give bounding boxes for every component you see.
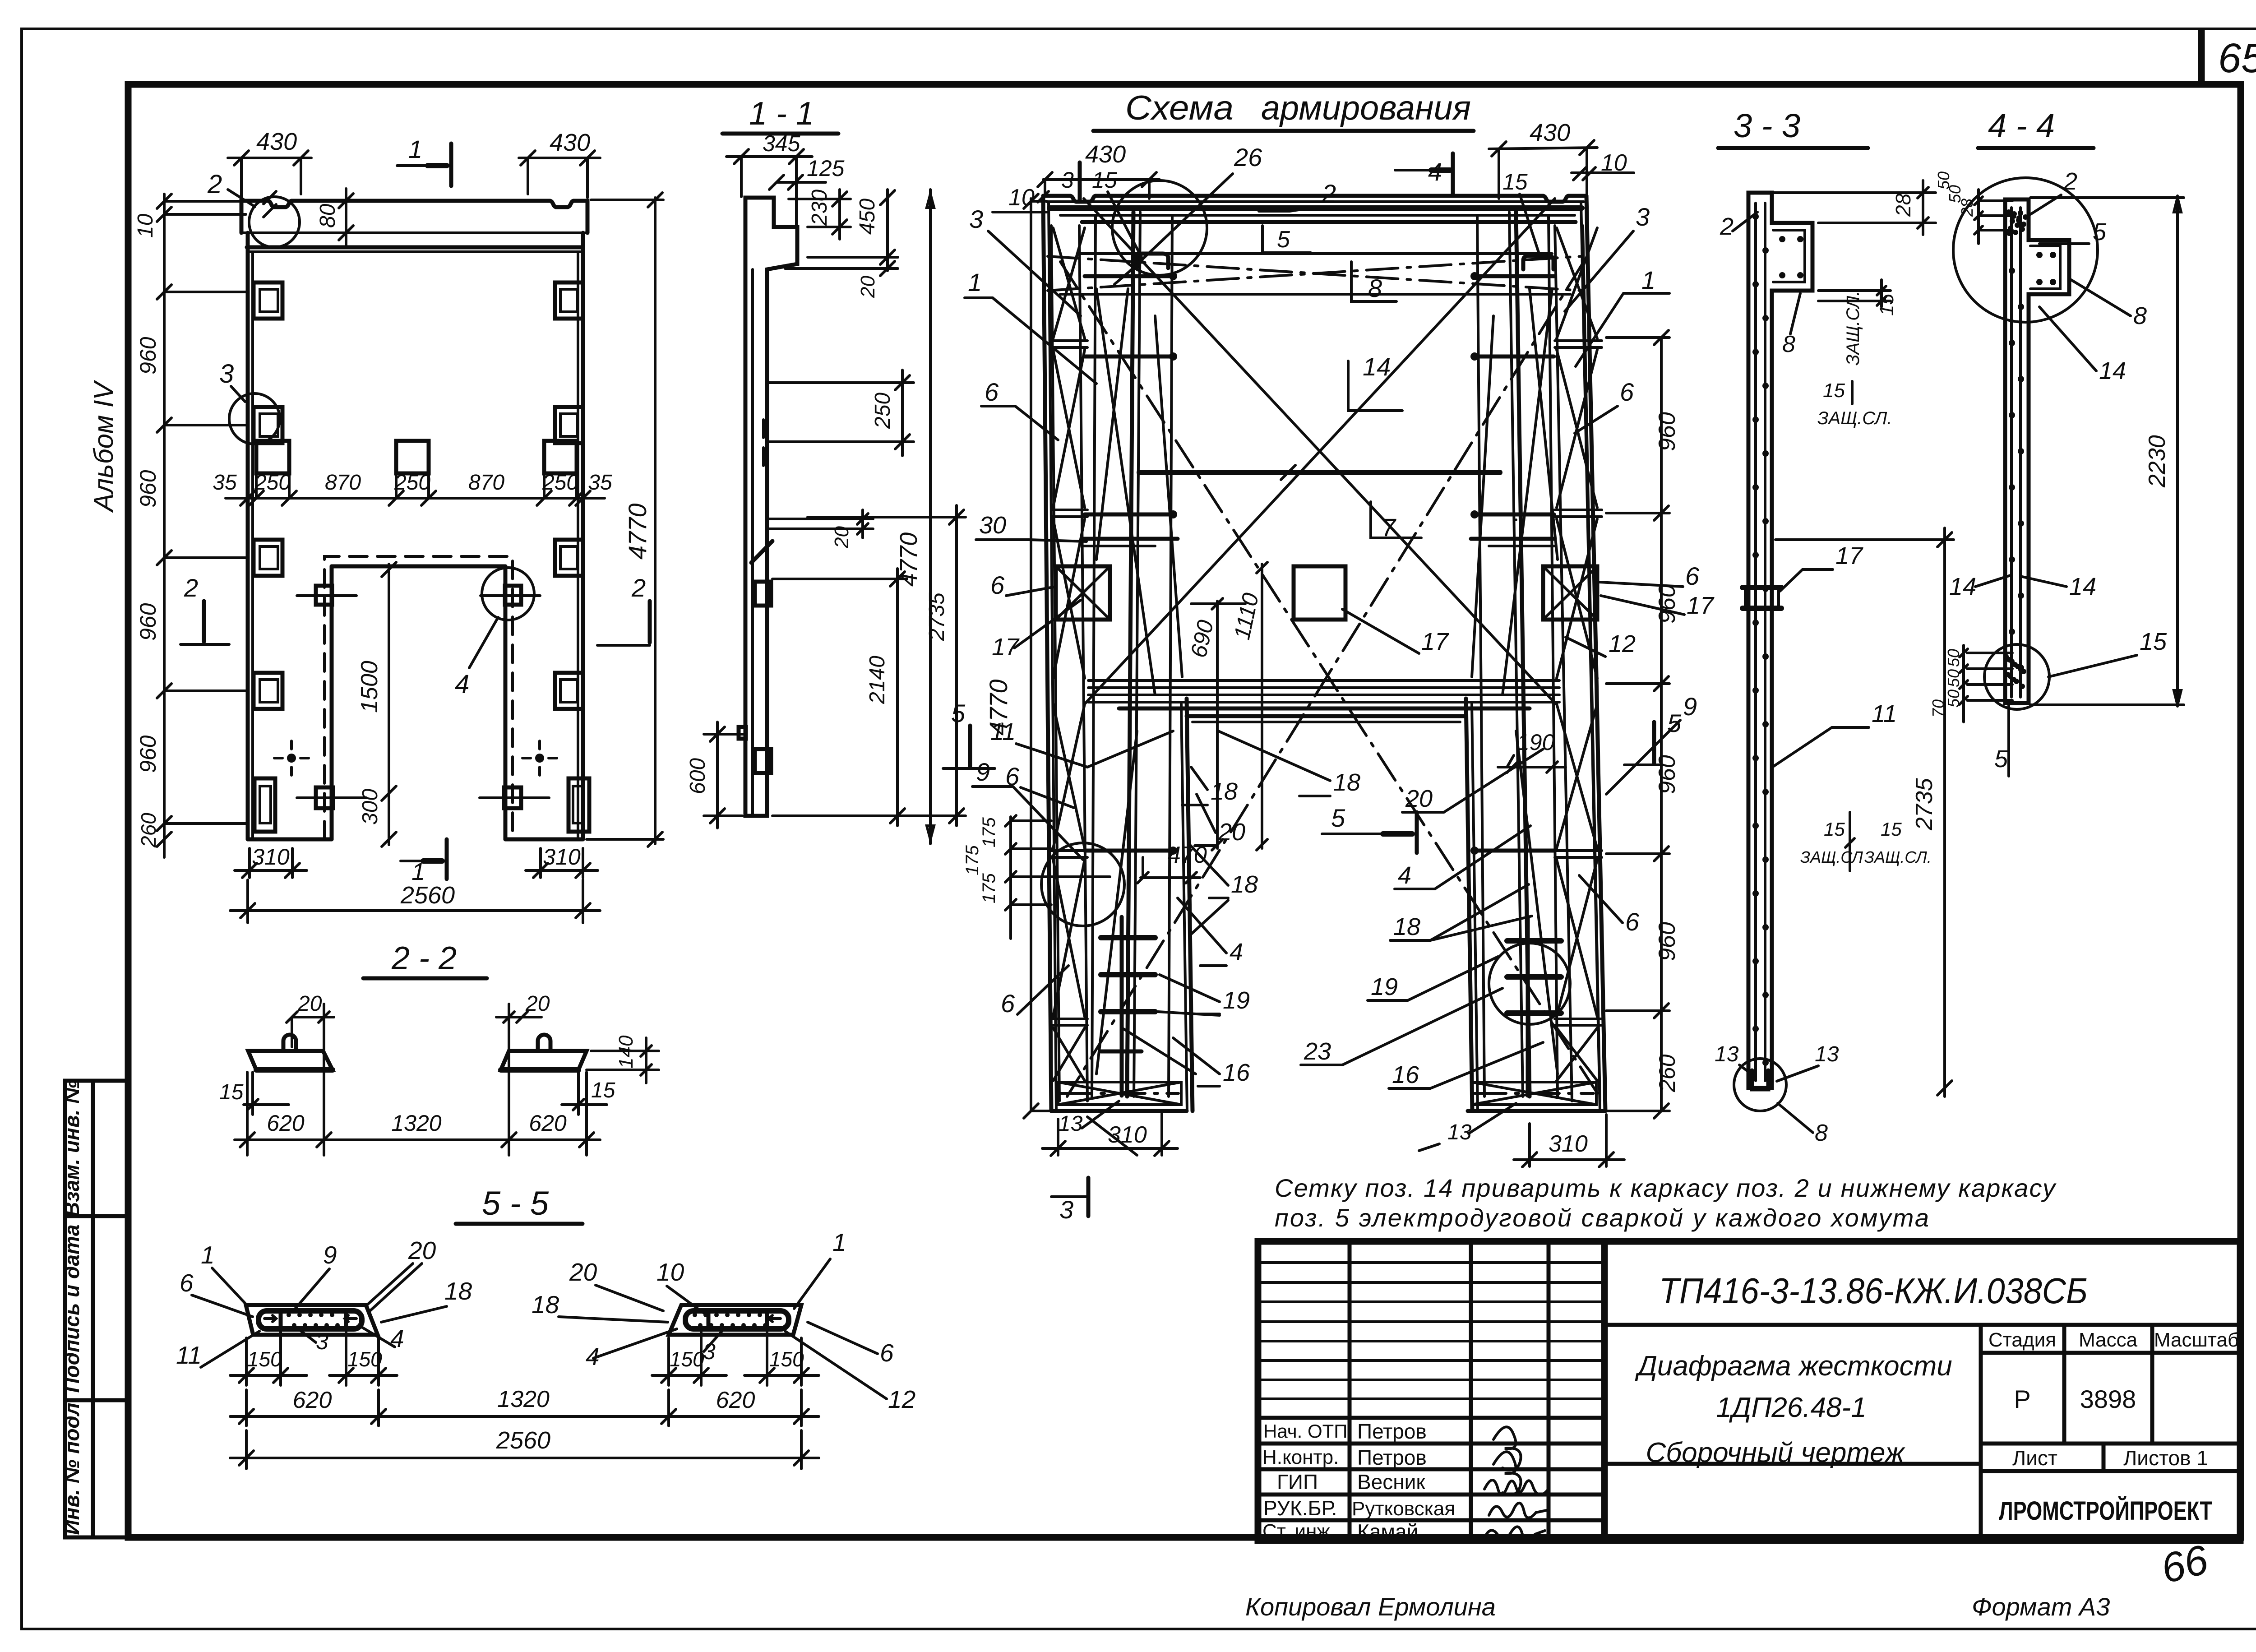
front view: dim 2560 [246,880,249,923]
svg-text:3: 3 [219,359,234,389]
svg-text:15: 15 [1092,167,1117,193]
front view: right edge loop 2 [555,407,583,443]
svg-text:18: 18 [444,1277,472,1305]
svg-text:190: 190 [1517,730,1555,755]
svg-text:260: 260 [137,813,160,848]
scheme: top rebar 2 (thick) [1049,205,1582,211]
front view: left edge loop 4 [254,673,282,709]
svg-text:4: 4 [455,670,469,699]
scheme: lintel bar thick [1119,707,1530,711]
svg-text:5: 5 [1994,745,2008,773]
scheme: lintel bar 3 [1088,694,1559,696]
scheme: right ladder bar 19 [1526,917,1530,1096]
front view: right edge loop 4 [555,673,583,709]
scheme: upper dashdot cross B [1048,256,1581,291]
named rows [1258,1416,1604,1420]
svg-text:1: 1 [968,268,982,296]
section 1-1: wall inner line [751,269,754,816]
section 4-4: profile outline [2005,199,2069,703]
svg-text:310: 310 [1108,1122,1147,1148]
section 2-2: right ext vertical [508,1004,510,1155]
section 3-3: inner bar lines [1754,203,1757,1081]
scheme: misc leader lines lower legs [1096,731,1137,1074]
svg-text:70: 70 [1929,699,1947,717]
svg-text:6: 6 [880,1339,894,1367]
section 4-4: bottom anchor zone [2003,654,2009,659]
section 4-4: inner mesh lines [2010,208,2013,697]
scheme: opening right edge [1472,704,1478,1111]
svg-text:ЗАЩ.СЛ.: ЗАЩ.СЛ. [1864,848,1932,866]
scheme: diagonal brace B [1085,199,1555,704]
svg-text:250: 250 [394,471,430,495]
section 5-5: right plate dividers [707,1311,711,1329]
front view: dim 310 right [539,848,542,878]
svg-text:5 - 5: 5 - 5 [482,1185,549,1222]
svg-text:430: 430 [256,128,297,155]
svg-text:250: 250 [254,471,291,495]
svg-text:150: 150 [670,1347,704,1371]
section 1-1: profile outline [745,198,797,816]
front view: right edge loop 1 [555,282,583,319]
svg-text:620: 620 [716,1387,755,1413]
svg-text:20: 20 [408,1236,436,1264]
front view: left edge loop 3 [254,540,282,576]
scheme: top rebar 5 (thick) [1082,220,1576,224]
section 5-5: dim 2560 [245,1430,248,1469]
svg-text:20: 20 [831,526,853,549]
section 1-1: dim 2735 [955,505,958,826]
scheme: right leg bottom edge [1468,1109,1605,1113]
svg-text:310: 310 [252,844,290,870]
svg-text:14: 14 [1949,573,1976,600]
scheme: left cage outer lines [1051,226,1059,1101]
svg-text:Весник: Весник [1357,1470,1425,1494]
scheme: dim 310 bottom-left [1057,1119,1059,1155]
svg-text:1: 1 [201,1241,215,1269]
svg-text:2: 2 [2063,168,2077,195]
svg-text:8: 8 [1782,331,1795,357]
scheme: right cage cross bracing [1557,228,1597,338]
front view: detail circle 4 [482,568,534,620]
section 1-1: bottom left lug [739,727,746,739]
scheme: opening left edge [1181,704,1187,1111]
svg-text:620: 620 [293,1387,332,1413]
svg-text:26: 26 [1234,143,1262,171]
section 2-2: left block [248,1051,333,1070]
svg-text:ТП416-3-13.86-КЖ.И.038СБ: ТП416-3-13.86-КЖ.И.038СБ [1659,1271,2088,1311]
svg-text:310: 310 [543,844,581,870]
svg-text:2560: 2560 [400,882,455,909]
scheme: hook 15 right [1523,256,1553,269]
scheme: hook 15 left [1137,254,1168,268]
svg-text:Листов 1: Листов 1 [2123,1446,2208,1470]
svg-text:430: 430 [1530,119,1570,146]
name box [1979,1325,1983,1541]
front view: dim 430 left [228,157,311,159]
section 3-3: dim 15 right [1880,280,1883,307]
svg-text:17: 17 [1421,628,1449,655]
section 4-4: mesh dots [2009,268,2015,274]
svg-text:РУК.БР.: РУК.БР. [1263,1496,1337,1520]
section 1-1: dim 20 mid [769,518,873,520]
section 4-4: top detail circle [1953,178,2098,322]
svg-text:1320: 1320 [497,1386,550,1412]
front view: opening left bottom hook [316,787,333,808]
svg-text:5: 5 [1667,709,1682,737]
scheme: bar 7 (thick mid) [1139,470,1500,475]
svg-text:960: 960 [135,735,161,773]
svg-text:Масштаб: Масштаб [2154,1329,2239,1351]
scheme: dims 175 left [1009,817,1012,939]
svg-text:20: 20 [857,276,879,298]
scheme: top bar line [1060,214,1575,217]
svg-text:15: 15 [1502,169,1528,194]
scheme: diagonal brace A [1084,199,1556,704]
section 2-2: left block loop [283,1035,296,1050]
front view: opening left edge [330,566,334,839]
svg-text:18: 18 [1393,913,1420,940]
svg-text:620: 620 [529,1111,567,1136]
scheme: right ladder detail circle [1489,943,1570,1024]
section 5-5: right dims 150 [667,1338,670,1385]
svg-text:150: 150 [769,1347,804,1371]
front view: beam bottom line [241,231,587,234]
svg-text:230: 230 [808,190,832,226]
svg-text:2: 2 [184,574,198,602]
scheme: left leg bottom edge [1051,1109,1187,1113]
front view: left edge loop 2 [254,407,282,443]
svg-text:11: 11 [176,1341,202,1369]
svg-text:2735: 2735 [925,592,949,641]
svg-text:175: 175 [979,873,999,903]
svg-text:140: 140 [615,1035,637,1069]
scheme: left cage rungs [1051,339,1087,342]
scheme: left leg box 6 [1056,566,1110,620]
svg-text:Взам. инв. №: Взам. инв. № [60,1080,83,1217]
svg-text:15: 15 [1881,819,1902,840]
svg-text:250: 250 [871,393,895,429]
svg-text:450: 450 [855,199,879,235]
scheme: right dim chain [1660,338,1663,1111]
section 4-4: top anchor hatch [2006,209,2011,215]
front view: left dim line [163,194,166,857]
scheme: misc leader lines right leg [1502,289,1552,695]
svg-text:35: 35 [588,471,612,495]
scheme: inner top line [1047,200,1584,203]
svg-text:4: 4 [1398,862,1411,889]
scheme: outline left edge [1043,196,1051,1111]
front view: opening right top hook [505,586,521,605]
section 4-4: dim 2230 [2176,196,2179,706]
svg-text:125: 125 [807,156,845,181]
front view: left bottom loop [254,778,275,832]
scheme: right leg bar 16 [1477,217,1484,1097]
svg-text:10: 10 [134,213,157,238]
section 1-1: dim 125 [777,181,826,184]
svg-text:18: 18 [1333,769,1360,796]
svg-text:6: 6 [985,378,999,406]
svg-text:15: 15 [219,1080,244,1104]
svg-text:11: 11 [1872,700,1897,727]
section 5-5: right plate dots [693,1313,697,1317]
svg-text:Нач. ОТП: Нач. ОТП [1263,1421,1348,1442]
svg-text:ЛРОМСТРОЙПРОЕКТ: ЛРОМСТРОЙПРОЕКТ [1999,1496,2212,1526]
scheme: right leg box 6 [1543,566,1597,620]
scheme: dim 1110 [1261,564,1263,848]
scheme: left ladder bar 19 [1120,917,1124,1096]
svg-text:20: 20 [525,992,550,1016]
section 3-3: dim 28 top [1773,191,1936,194]
svg-text:430: 430 [550,129,590,156]
scheme: dim 4770 left [1030,199,1032,1111]
scheme: left bars 30 [1084,537,1178,541]
svg-text:80: 80 [316,204,340,228]
front view: panel left edge [246,233,250,839]
left grid verticals [1348,1241,1352,1541]
section 3-3: corbel stirrup [1773,230,1805,282]
front view: beam outline [241,201,587,233]
front view: mid dim ext lines [255,473,258,498]
svg-text:1ДП26.48-1: 1ДП26.48-1 [1716,1392,1866,1423]
svg-text:4: 4 [390,1324,404,1352]
scheme: right bottom cage [1472,1082,1596,1105]
svg-text:11: 11 [990,718,1016,745]
scheme: dashdot diagonal B [1067,262,1584,1097]
svg-text:3: 3 [316,1329,328,1354]
svg-text:15: 15 [1824,819,1845,840]
svg-text:4770: 4770 [895,532,922,587]
scheme: left leg bar 16 [1169,217,1172,1097]
svg-text:Стадия: Стадия [1988,1329,2056,1351]
svg-text:Камай: Камай [1357,1520,1418,1543]
section 2-2: dim 20 right [496,1016,541,1018]
left grid fine rows [1258,1261,1604,1264]
svg-text:19: 19 [1223,987,1250,1014]
svg-text:20: 20 [569,1258,597,1286]
svg-text:620: 620 [267,1111,305,1136]
svg-text:16: 16 [1223,1059,1250,1086]
front view: mid dim line [226,497,605,500]
section 1-1: weld slash [751,541,772,563]
scheme: outline right edge [1586,196,1605,1111]
svg-text:18: 18 [1211,778,1238,805]
svg-text:30: 30 [979,512,1006,539]
svg-text:960: 960 [135,470,161,508]
scheme: lintel bar 2 [1088,686,1559,689]
svg-text:поз. 5 электродуговой сварк: поз. 5 электродуговой сваркой у каждого … [1275,1203,1929,1232]
section 1-1: embed plate low [755,749,771,773]
svg-text:4: 4 [1230,939,1243,966]
svg-text:150: 150 [347,1347,382,1371]
svg-text:65: 65 [2218,35,2256,81]
svg-text:960: 960 [1654,584,1680,624]
section 1-1: dim 250 [769,381,914,384]
signatures [1493,1427,1521,1470]
front view: centring cross [274,757,282,759]
svg-text:1: 1 [1641,266,1655,294]
svg-text:6: 6 [990,571,1005,599]
scheme: right hook bars [1475,274,1554,278]
front view: ledge lines under beam [247,245,582,250]
scheme: outline top edge with notches [1043,196,1586,202]
section 5-5: left dims 150 [245,1338,248,1385]
svg-text:13: 13 [1815,1042,1839,1066]
svg-text:2140: 2140 [865,656,889,704]
svg-text:8: 8 [1815,1120,1828,1146]
svg-text:960: 960 [1654,922,1680,961]
svg-text:12: 12 [1609,630,1636,657]
section 2-2: bottom dim chain [235,1138,600,1141]
note text [1275,1174,2057,1232]
left sidebar boxes [60,380,128,1537]
section 3-3: pos17 ties [1743,585,1781,590]
svg-text:13: 13 [1059,1112,1083,1136]
section 2-2: left ext vertical [323,1004,325,1155]
svg-text:260: 260 [1655,1054,1680,1092]
front view: dim 80 [345,189,347,246]
section 5-5: left plate dots [287,1313,291,1317]
svg-text:6: 6 [1620,378,1634,406]
section 3-3: bottom circle detail [1734,1059,1786,1111]
svg-text:175: 175 [962,845,982,875]
svg-text:18: 18 [1231,871,1258,898]
svg-text:9: 9 [976,758,990,786]
scheme: lintel bar 1 [1088,679,1559,682]
section 3-3: dim 2735 [1943,528,1946,1097]
scheme: dim 310 bottom-right [1528,1124,1531,1166]
svg-text:28: 28 [1891,193,1915,217]
scheme: beam underside ledge [1078,252,1552,255]
svg-text:18: 18 [532,1291,559,1319]
svg-text:5: 5 [951,699,966,727]
svg-text:870: 870 [468,471,504,495]
scheme: centre box 17 [1294,566,1345,620]
svg-text:ГИП: ГИП [1277,1470,1318,1494]
svg-text:8: 8 [2133,302,2147,329]
svg-text:8: 8 [1368,274,1382,302]
svg-text:6: 6 [1685,562,1700,590]
svg-text:Н.контр.: Н.контр. [1262,1446,1339,1468]
svg-text:6: 6 [1625,907,1640,936]
front view: panel right edge [581,233,585,839]
svg-text:15: 15 [591,1078,615,1102]
svg-text:Масса: Масса [2079,1329,2138,1351]
svg-text:14: 14 [2099,357,2126,384]
svg-text:Копировал Ермолина: Копировал Ермолина [1245,1592,1496,1621]
scheme: right leg bar 1 (double) [1516,212,1530,1097]
svg-text:960: 960 [1654,412,1680,451]
front view: opening left top hook [316,586,332,605]
section 1-1: dim 4770 [929,190,932,844]
svg-text:армирования: армирования [1261,89,1471,127]
svg-text:Рутковская: Рутковская [1352,1498,1455,1520]
svg-text:870: 870 [325,471,361,495]
svg-text:600: 600 [686,758,710,794]
front view: detail circle 3 [229,393,280,444]
svg-text:1500: 1500 [356,661,383,713]
stage/mass/scale [2062,1325,2066,1444]
front view: opening top edge [332,565,505,569]
svg-text:4770: 4770 [623,503,652,560]
svg-text:Ст. инж.: Ст. инж. [1262,1520,1336,1542]
front view: left edge loop 1 [254,282,282,319]
scheme: right leg bar inner [1549,217,1558,1097]
section 2-2: dim 140 [591,1050,659,1052]
svg-text:2: 2 [207,170,222,199]
svg-text:2735: 2735 [1911,777,1937,831]
svg-text:19: 19 [1371,973,1398,1000]
svg-text:5: 5 [2093,218,2107,245]
svg-text:3: 3 [1636,203,1650,231]
svg-text:Лист: Лист [2012,1446,2057,1470]
svg-text:3: 3 [1061,167,1074,193]
page number box 65 [2201,30,2256,84]
svg-text:9: 9 [323,1241,337,1269]
section 1-1: dim 20 top [785,267,898,270]
svg-text:430: 430 [1085,141,1126,168]
front view: detail circle 2 [249,197,300,247]
section 2-2: right block loop [538,1035,550,1050]
front view: vent square 1 [256,441,289,473]
main title [1093,89,1474,131]
svg-text:Схема: Схема [1125,89,1234,127]
title block [1258,1241,2240,1543]
section 3-3: profile outline [1748,193,1812,1088]
svg-text:Диафрагма жесткости: Диафрагма жесткости [1635,1351,1952,1382]
scheme: left leg bar inner [1092,217,1096,1097]
section 3-3: stirrup dots [1752,213,1759,220]
scheme: dashdot diagonal A [1060,262,1600,1097]
svg-text:960: 960 [135,337,161,375]
svg-text:14: 14 [2069,573,2096,600]
scheme: left detail circle [1041,843,1124,926]
svg-text:15: 15 [1823,379,1845,402]
svg-text:Формат А3: Формат А3 [1972,1592,2110,1621]
svg-text:175: 175 [979,817,999,847]
svg-text:Петров: Петров [1357,1446,1427,1469]
svg-text:17: 17 [1835,542,1863,569]
svg-text:2230: 2230 [2144,435,2170,488]
scheme: upper bar line 2 [1060,293,1570,296]
section 1-1: dim 600 [704,733,744,736]
svg-text:16: 16 [1392,1061,1419,1088]
scheme: lintel bar 4 [1088,701,1559,703]
scheme: right bars 30 [1471,537,1555,541]
scheme: left leg bar 1 (double) [1127,212,1133,1097]
svg-text:960: 960 [135,603,161,641]
section 1-1: dim 450 [808,256,898,259]
svg-text:14: 14 [1363,352,1391,381]
svg-text:15: 15 [2140,628,2167,655]
svg-text:20: 20 [297,992,322,1016]
svg-text:2: 2 [631,574,646,602]
section 5-5: left plate end hooks [264,1315,276,1322]
svg-text:20: 20 [1405,785,1433,812]
svg-text:150: 150 [247,1347,282,1371]
bottom annotations [1245,1536,2213,1621]
scheme: upper dashdot cross A [1048,256,1581,291]
svg-text:10: 10 [656,1258,684,1286]
svg-text:35: 35 [213,471,237,495]
front view: opening right edge [504,566,508,839]
svg-text:2 - 2: 2 - 2 [391,940,457,976]
scheme: detail circle top-left [1112,180,1207,275]
svg-text:345: 345 [763,131,800,156]
front view: right bottom loop [569,778,589,832]
svg-text:13: 13 [1715,1042,1739,1066]
svg-text:17: 17 [1687,592,1715,619]
svg-text:1: 1 [408,135,422,163]
